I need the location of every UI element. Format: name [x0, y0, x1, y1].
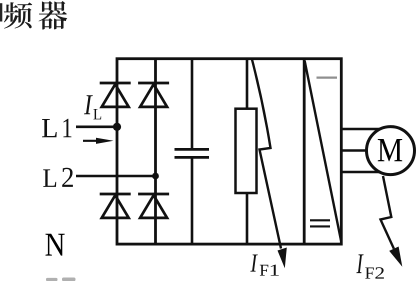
wire: motor phase U [341, 128, 382, 131]
inverter diagonal [305, 61, 341, 241]
label N (neutral) [45, 234, 64, 256]
fault current arrow I_F1 (lightning bolt) [252, 60, 287, 269]
wire: motor phase W [341, 171, 382, 174]
fault current arrow I_F2 (lightning bolt) [381, 176, 403, 267]
label L1 [42, 119, 71, 137]
wire: braking resistor branch [246, 59, 249, 244]
converter enclosure box [117, 59, 341, 244]
wire: motor phase V [341, 149, 378, 152]
divider: inverter section boundary [303, 59, 306, 244]
resistor R (braking) [236, 109, 257, 193]
cropped bottom text remnants [46, 278, 76, 281]
wire: L1 input [76, 126, 117, 129]
thyristor V4 (lower right) [138, 194, 169, 218]
inverter DC mark (=) [310, 220, 330, 226]
wire: L2 input [76, 175, 156, 178]
thyristor V1 (upper left) [100, 83, 131, 107]
label L2 [43, 168, 73, 187]
inverter AC mark (gray dash) [317, 76, 338, 78]
node: L2 junction dot [152, 173, 159, 180]
wire: DC-link capacitor branch [191, 59, 194, 244]
thyristor V2 (upper right) [138, 83, 169, 107]
motor M circle [367, 127, 415, 175]
node: L1 junction dot [113, 123, 121, 131]
wire: rectifier leg B [154, 59, 157, 244]
label I_F1 [250, 255, 278, 276]
label M [378, 139, 402, 161]
label I_F2 [356, 254, 384, 278]
label 频器 (cropped caption 变频器) [4, 1, 67, 29]
capacitor C (DC link) [175, 149, 210, 157]
current arrow I_L [83, 138, 114, 144]
thyristor V3 (lower left) [100, 194, 131, 218]
label I_L [84, 95, 101, 119]
cropped character sliver (edge of 变) [0, 3, 2, 21]
